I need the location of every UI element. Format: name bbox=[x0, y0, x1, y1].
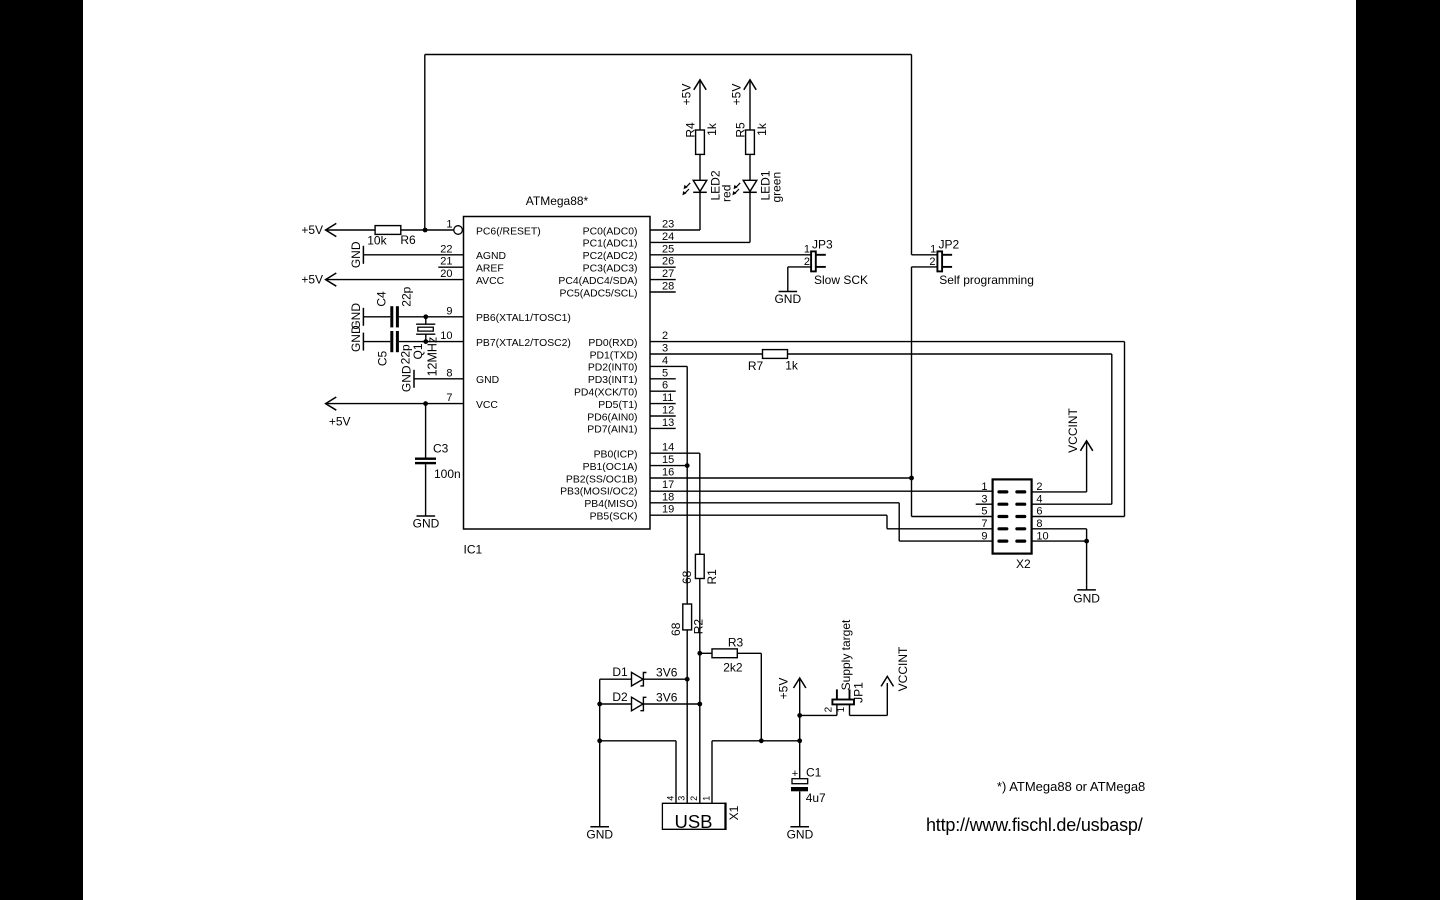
wire C3 to ground bbox=[425, 464, 427, 516]
svg-text:ATMega88*: ATMega88* bbox=[526, 194, 589, 208]
svg-text:1k: 1k bbox=[705, 122, 719, 136]
svg-text:1k: 1k bbox=[785, 359, 799, 373]
svg-text:R7: R7 bbox=[748, 359, 764, 373]
svg-text:+5V: +5V bbox=[329, 414, 351, 428]
X2 pad row 3 bbox=[999, 515, 1007, 518]
wire top rail right vertical to JP2 pin 1 bbox=[911, 55, 913, 255]
svg-text:11: 11 bbox=[662, 392, 673, 404]
svg-text:PD5(T1): PD5(T1) bbox=[598, 400, 637, 411]
wire NC pin stub bbox=[650, 427, 676, 429]
svg-text:3V6: 3V6 bbox=[656, 690, 678, 704]
svg-text:2k2: 2k2 bbox=[723, 660, 743, 674]
wire pin 3 TXD left of R7 bbox=[650, 353, 763, 355]
left black pillarbox bbox=[0, 0, 83, 900]
wire AVCC to +5V arrow bbox=[326, 279, 464, 281]
wire +5V rail down to C1 bbox=[799, 741, 801, 779]
svg-text:PD3(INT1): PD3(INT1) bbox=[588, 375, 638, 386]
svg-text:9: 9 bbox=[981, 530, 987, 542]
LED LED2 emission arrows bbox=[685, 183, 691, 194]
wire JP1 pin 1 to VCCINT arrow bbox=[849, 704, 851, 715]
wire top rail bbox=[425, 54, 912, 56]
wire LED2 down to pin row bbox=[699, 192, 701, 230]
svg-text:Q1: Q1 bbox=[411, 343, 425, 359]
svg-text:PB3(MOSI/OC2): PB3(MOSI/OC2) bbox=[560, 487, 637, 498]
node junction PD2/PB1 D- net bbox=[685, 463, 690, 468]
svg-text:21: 21 bbox=[440, 256, 452, 268]
wire VCC pin 7 to +5V arrow bbox=[326, 403, 464, 405]
node junction +5V rail / C1 bbox=[797, 738, 802, 743]
node junction JP2 net / PB2 pin 16 bbox=[909, 476, 914, 481]
svg-text:16: 16 bbox=[662, 467, 674, 479]
ground symbol at C4 bbox=[362, 308, 364, 326]
svg-text:R4: R4 bbox=[684, 122, 698, 138]
zener diode D2 cathode bar bbox=[640, 697, 646, 710]
svg-text:1: 1 bbox=[836, 706, 847, 712]
jumper JP1 body bbox=[832, 700, 854, 705]
resistor R2 bbox=[683, 604, 692, 630]
svg-text:GND: GND bbox=[349, 325, 363, 352]
svg-text:28: 28 bbox=[662, 281, 674, 293]
wire bottom rail to USB pin 4 bbox=[600, 740, 676, 742]
connector X2 body bbox=[993, 479, 1032, 553]
wire GND pin 8 bbox=[414, 378, 464, 380]
svg-text:100n: 100n bbox=[434, 467, 461, 481]
node junction VCC/C3 bbox=[423, 401, 428, 406]
svg-text:1: 1 bbox=[446, 219, 452, 231]
svg-text:AVCC: AVCC bbox=[476, 276, 505, 287]
X2 pad row 5 bbox=[999, 539, 1007, 542]
svg-text:1: 1 bbox=[701, 796, 711, 801]
svg-text:+5V: +5V bbox=[730, 84, 744, 106]
capacitor C5 plates bbox=[390, 331, 393, 352]
wire pin 18 MISO to X2 pin 9 bbox=[650, 502, 899, 504]
svg-text:5: 5 bbox=[981, 506, 987, 518]
svg-text:GND: GND bbox=[476, 375, 499, 386]
svg-text:6: 6 bbox=[662, 380, 668, 392]
svg-text:PD1(TXD): PD1(TXD) bbox=[590, 350, 638, 361]
svg-text:PC2(ADC2): PC2(ADC2) bbox=[583, 251, 638, 262]
wire D+ to R3 bbox=[700, 652, 712, 654]
svg-text:C3: C3 bbox=[433, 442, 449, 456]
VCCINT power arrow (JP1) bbox=[881, 676, 893, 686]
wire X2 pin 10 to ground bbox=[1032, 540, 1087, 542]
svg-text:PB5(SCK): PB5(SCK) bbox=[590, 512, 638, 523]
svg-text:AGND: AGND bbox=[476, 251, 506, 262]
svg-text:Self programming: Self programming bbox=[939, 273, 1034, 287]
pin 1 inversion bubble (PC6/RESET) bbox=[454, 226, 463, 235]
node junction crystal bottom on pin 10 bbox=[423, 339, 428, 344]
svg-text:4: 4 bbox=[665, 796, 675, 801]
node junction R1/R3 D+ net bbox=[697, 651, 702, 656]
svg-text:PB7(XTAL2/TOSC2): PB7(XTAL2/TOSC2) bbox=[476, 338, 571, 349]
svg-text:12: 12 bbox=[662, 405, 674, 417]
svg-text:1: 1 bbox=[804, 243, 810, 255]
+5V power arrow above R4 bbox=[694, 80, 706, 90]
svg-text:68: 68 bbox=[669, 622, 683, 636]
ground symbol below C1 bbox=[790, 826, 809, 828]
wire D1 anode bbox=[600, 678, 632, 680]
svg-text:PB6(XTAL1/TOSC1): PB6(XTAL1/TOSC1) bbox=[476, 313, 571, 324]
svg-text:24: 24 bbox=[662, 231, 674, 243]
X2 pad row 2 bbox=[999, 503, 1007, 506]
svg-text:R2: R2 bbox=[691, 619, 705, 635]
node junction crystal top on pin 9 bbox=[423, 314, 428, 319]
wire USB pin 1 to +5V rail bbox=[711, 741, 713, 803]
svg-text:18: 18 bbox=[662, 491, 674, 503]
svg-text:R6: R6 bbox=[400, 233, 416, 247]
svg-text:D2: D2 bbox=[612, 690, 628, 704]
wire JP3 pin 2 to ground bbox=[788, 266, 811, 268]
svg-text:PC5(ADC5/SCL): PC5(ADC5/SCL) bbox=[560, 288, 638, 299]
svg-text:PD2(INT0): PD2(INT0) bbox=[588, 363, 638, 374]
wire pin 10 left segment through C5 bbox=[363, 341, 390, 343]
svg-text:PD6(AIN0): PD6(AIN0) bbox=[587, 412, 637, 423]
node junction X2 ground net bbox=[1084, 539, 1089, 544]
LED LED2 triangle bbox=[693, 180, 707, 191]
LED LED1 cathode bar bbox=[743, 191, 757, 193]
op-amp U1 body: IC1 ATMega88 box bbox=[464, 217, 651, 530]
wire D2 cathode to D+ column bbox=[643, 703, 699, 705]
wire X2 pin 2 to VCCINT arrow bbox=[1032, 491, 1087, 493]
LED LED1 emission arrows bbox=[735, 183, 741, 194]
capacitor C1 positive plate bbox=[792, 779, 808, 784]
svg-text:PC1(ADC1): PC1(ADC1) bbox=[583, 239, 638, 250]
wire AGND pin 22 to ground bbox=[363, 254, 463, 256]
resistor R7 bbox=[763, 350, 788, 359]
svg-text:red: red bbox=[720, 185, 734, 202]
svg-text:R5: R5 bbox=[734, 122, 748, 138]
node junction ground column / bottom rail bbox=[597, 738, 602, 743]
wire pin 19 SCK to X2 pin 7 bbox=[650, 514, 887, 516]
wire pin 4 INT0 to D- column bbox=[650, 365, 687, 367]
LED LED1 triangle bbox=[743, 180, 757, 191]
ground symbol at AGND bbox=[362, 246, 364, 264]
svg-text:7: 7 bbox=[981, 518, 987, 530]
wire NC pin stub bbox=[650, 403, 676, 405]
wire pin 17 MOSI to X2 pin 1 bbox=[650, 490, 993, 492]
ground symbol at C5 bbox=[362, 333, 364, 351]
svg-text:10: 10 bbox=[440, 330, 452, 342]
wire R2 down to D- / USB pin 3 bbox=[686, 630, 688, 803]
svg-text:VCCINT: VCCINT bbox=[896, 646, 910, 691]
wire pin 9 left segment through C4 bbox=[363, 316, 390, 318]
svg-text:R3: R3 bbox=[728, 636, 744, 650]
+5V power arrow above R5 bbox=[744, 80, 756, 90]
svg-text:3V6: 3V6 bbox=[656, 666, 678, 680]
svg-text:GND: GND bbox=[413, 517, 440, 531]
ground symbol at pin 8 bbox=[413, 370, 415, 388]
svg-text:5: 5 bbox=[662, 367, 668, 379]
jumper JP3 body bbox=[811, 251, 816, 271]
wire pin 16 PB2 to JP2 net bbox=[650, 477, 912, 479]
svg-text:4u7: 4u7 bbox=[806, 791, 826, 805]
svg-text:PB2(SS/OC1B): PB2(SS/OC1B) bbox=[566, 474, 638, 485]
wire JP2 pin 2 down to X2 pin 5 bbox=[912, 266, 938, 268]
svg-text:3: 3 bbox=[662, 343, 668, 355]
JP3 pin stubs bbox=[816, 254, 826, 256]
svg-text:1k: 1k bbox=[755, 122, 769, 136]
svg-text:IC1: IC1 bbox=[464, 543, 483, 557]
svg-text:3: 3 bbox=[677, 796, 687, 801]
node junction D1/D- column bbox=[685, 677, 690, 682]
wire NC pin stub bbox=[650, 415, 676, 417]
svg-text:AREF: AREF bbox=[476, 264, 504, 275]
svg-text:17: 17 bbox=[662, 479, 674, 491]
resistor R6 bbox=[375, 226, 401, 235]
svg-text:GND: GND bbox=[586, 828, 613, 842]
wire LED1 down to pin row bbox=[749, 192, 751, 242]
wire AREF stub bbox=[438, 266, 463, 268]
svg-text:1: 1 bbox=[981, 481, 987, 493]
svg-text:PC0(ADC0): PC0(ADC0) bbox=[583, 226, 638, 237]
svg-text:C5: C5 bbox=[376, 351, 390, 367]
wire R5 to LED1 bbox=[749, 154, 751, 180]
wire pin 15 PB1 to D- column bbox=[650, 465, 687, 467]
svg-text:20: 20 bbox=[440, 268, 452, 280]
LED LED2 cathode bar bbox=[693, 191, 707, 193]
svg-text:VCCINT: VCCINT bbox=[1066, 408, 1080, 453]
node junction D2/D+ column bbox=[697, 702, 702, 707]
wire NC pin stub bbox=[650, 390, 676, 392]
svg-text:GND: GND bbox=[774, 292, 801, 306]
VCCINT power arrow (X2) bbox=[1080, 441, 1092, 451]
wire ground column (D1/D2 anodes) bbox=[599, 679, 601, 827]
svg-text:C4: C4 bbox=[375, 291, 389, 307]
svg-text:2: 2 bbox=[824, 706, 835, 712]
wire NC pin stub bbox=[650, 378, 676, 380]
ground symbol below X2 bbox=[1077, 589, 1096, 591]
svg-text:Supply target: Supply target bbox=[839, 619, 853, 690]
svg-text:22p: 22p bbox=[400, 286, 414, 306]
+5V power arrow (VCC) bbox=[326, 397, 337, 410]
svg-text:25: 25 bbox=[662, 243, 674, 255]
wire IC pin to LED1 column bbox=[650, 241, 750, 243]
svg-text:PB0(ICP): PB0(ICP) bbox=[594, 450, 638, 461]
svg-text:6: 6 bbox=[1036, 506, 1042, 518]
ground symbol below C3 bbox=[417, 515, 436, 517]
svg-text:D1: D1 bbox=[612, 665, 628, 679]
wire D- column down to R2 bbox=[686, 366, 688, 604]
wire top rail to JP2 pin 1 bbox=[912, 254, 938, 256]
zener diode D2 triangle bbox=[632, 697, 644, 711]
svg-text:GND: GND bbox=[787, 828, 814, 842]
node junction D2 anode / ground column bbox=[597, 702, 602, 707]
wire R6 to pin 1 bubble bbox=[401, 229, 454, 231]
wire D+ column down to R1 bbox=[699, 453, 701, 554]
svg-text:2: 2 bbox=[929, 256, 935, 268]
resistor R1 bbox=[695, 554, 704, 578]
capacitor C1 negative plate bbox=[791, 787, 808, 791]
svg-text:68: 68 bbox=[680, 570, 694, 584]
svg-text:12MHz: 12MHz bbox=[426, 337, 440, 377]
connector X1 USB body bbox=[662, 803, 725, 829]
svg-text:+5V: +5V bbox=[301, 272, 323, 286]
crystal Q1 stems bbox=[425, 317, 427, 324]
wire pin 2 RXD to X2 pin 6 bbox=[650, 341, 1125, 343]
wire NC pin stub bbox=[650, 291, 676, 293]
svg-text:22: 22 bbox=[440, 243, 452, 255]
wire D1 cathode to D- column bbox=[643, 678, 687, 680]
zener diode D1 cathode bar bbox=[640, 673, 646, 686]
wire R1 down to D+ junction bbox=[699, 579, 701, 803]
svg-text:19: 19 bbox=[662, 504, 674, 516]
svg-text:2: 2 bbox=[689, 796, 699, 801]
wire R3 to +5V rail corner bbox=[737, 652, 761, 654]
svg-text:USB: USB bbox=[674, 811, 712, 832]
ground symbol bottom left bbox=[590, 826, 609, 828]
svg-text:23: 23 bbox=[662, 219, 674, 231]
svg-text:26: 26 bbox=[662, 256, 674, 268]
node junction +5V / JP1 bbox=[797, 713, 802, 718]
resistor R3 bbox=[712, 649, 737, 658]
svg-text:http://www.fischl.de/usbasp/: http://www.fischl.de/usbasp/ bbox=[926, 815, 1143, 835]
wire pin 25 to JP3 pin 1 bbox=[650, 254, 811, 256]
svg-text:2: 2 bbox=[662, 330, 668, 342]
svg-text:PB4(MISO): PB4(MISO) bbox=[584, 499, 637, 510]
wire pin 14 PB0 to D+ column bbox=[650, 452, 700, 454]
wire +5V arrow to R6 bbox=[326, 229, 376, 231]
svg-text:+5V: +5V bbox=[301, 223, 323, 237]
svg-text:PC4(ADC4/SDA): PC4(ADC4/SDA) bbox=[558, 276, 637, 287]
wire VCC down to C3 bbox=[425, 404, 427, 458]
svg-text:PC3(ADC3): PC3(ADC3) bbox=[583, 264, 638, 275]
node junction at pin1/R6/top rail bbox=[423, 228, 428, 233]
JP2 pin stubs bbox=[942, 254, 952, 256]
svg-text:X1: X1 bbox=[727, 805, 741, 820]
wire R7 to X2 pin 4 via right corner bbox=[788, 353, 1112, 355]
wire NC pin stub bbox=[650, 279, 676, 281]
svg-text:C1: C1 bbox=[806, 766, 822, 780]
svg-text:Slow SCK: Slow SCK bbox=[814, 273, 868, 287]
svg-text:15: 15 bbox=[662, 454, 674, 466]
crystal Q1 body rectangle bbox=[418, 327, 434, 331]
svg-text:VCC: VCC bbox=[476, 400, 498, 411]
svg-text:X2: X2 bbox=[1016, 557, 1031, 571]
wire R4 to LED2 bbox=[699, 154, 701, 180]
wire top rail left vertical to pin 1 bbox=[424, 55, 426, 231]
wire +5V to JP1 pin 2 bbox=[800, 714, 837, 716]
wire C1 to ground bbox=[799, 791, 801, 826]
svg-text:2: 2 bbox=[804, 256, 810, 268]
svg-text:R1: R1 bbox=[705, 569, 719, 585]
svg-text:*) ATMega88 or ATMega8: *) ATMega88 or ATMega8 bbox=[997, 779, 1145, 794]
svg-text:10k: 10k bbox=[367, 234, 387, 248]
svg-text:PC6(/RESET): PC6(/RESET) bbox=[476, 226, 541, 237]
JP1 pin stubs bbox=[836, 689, 838, 699]
svg-text:+: + bbox=[792, 768, 798, 780]
svg-text:GND: GND bbox=[399, 365, 413, 392]
wire X2 pin 8 to ground bbox=[1032, 528, 1087, 530]
svg-text:4: 4 bbox=[662, 355, 668, 367]
wire NC pin stub bbox=[650, 266, 676, 268]
crystal Q1 plates bbox=[416, 323, 435, 325]
svg-text:PD4(XCK/T0): PD4(XCK/T0) bbox=[574, 388, 638, 399]
svg-text:+5V: +5V bbox=[776, 678, 790, 700]
+5V power arrow (USB) bbox=[794, 678, 806, 688]
svg-text:PB1(OC1A): PB1(OC1A) bbox=[583, 462, 638, 473]
wire D2 anode bbox=[600, 703, 632, 705]
X2 pad row 1 bbox=[999, 490, 1007, 493]
svg-text:27: 27 bbox=[662, 268, 674, 280]
svg-text:JP1: JP1 bbox=[852, 682, 866, 703]
resistor R4 bbox=[696, 130, 705, 154]
svg-text:7: 7 bbox=[446, 392, 452, 404]
resistor R5 bbox=[746, 130, 755, 154]
svg-text:PD7(AIN1): PD7(AIN1) bbox=[587, 425, 637, 436]
zener diode D1 triangle bbox=[632, 672, 644, 686]
wire IC pin to LED2 column bbox=[650, 229, 700, 231]
svg-text:green: green bbox=[770, 172, 784, 203]
right black pillarbox bbox=[1356, 0, 1440, 900]
+5V power arrow (pin1 net) bbox=[326, 223, 337, 236]
svg-text:PD0(RXD): PD0(RXD) bbox=[588, 338, 637, 349]
svg-text:9: 9 bbox=[446, 305, 452, 317]
+5V power arrow (AVCC) bbox=[326, 273, 337, 286]
capacitor C4 plates bbox=[390, 306, 393, 327]
svg-text:4: 4 bbox=[1036, 493, 1042, 505]
svg-text:GND: GND bbox=[1073, 592, 1100, 606]
jumper JP2 body bbox=[937, 251, 942, 271]
svg-text:GND: GND bbox=[349, 241, 363, 268]
svg-text:14: 14 bbox=[662, 442, 674, 454]
ground symbol below JP3 bbox=[779, 291, 798, 293]
X2 pin 3 NC stub bbox=[976, 503, 993, 505]
svg-text:1: 1 bbox=[930, 243, 936, 255]
capacitor C3 plates bbox=[415, 458, 436, 460]
svg-text:+5V: +5V bbox=[680, 84, 694, 106]
svg-text:JP2: JP2 bbox=[939, 238, 960, 252]
svg-text:13: 13 bbox=[662, 417, 674, 429]
node junction R3 / +5V rail bbox=[759, 738, 764, 743]
svg-text:8: 8 bbox=[446, 367, 452, 379]
svg-text:JP3: JP3 bbox=[812, 238, 833, 252]
X2 pad row 4 bbox=[999, 527, 1007, 530]
